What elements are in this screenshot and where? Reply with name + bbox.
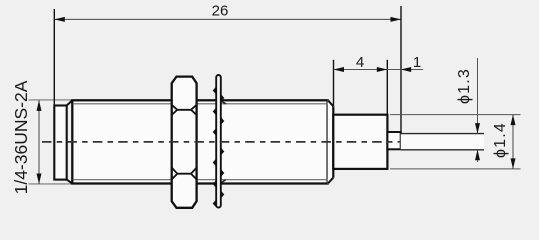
node: front collar bbox=[54, 106, 66, 180]
svg-text:26: 26 bbox=[212, 3, 229, 20]
svg-text:1: 1 bbox=[413, 54, 421, 71]
dimension 26: left extension line bbox=[53, 9, 55, 106]
wire: thread major extension line top bbox=[29, 99, 73, 101]
node: small rear cylinder bbox=[333, 115, 387, 169]
dimension 1: arrow (outside, pointing left) bbox=[401, 67, 412, 72]
wire: pin bottom line / phi1.3 extension bbox=[401, 149, 484, 151]
wire: body end chamfer bottom bbox=[328, 178, 333, 184]
wire: body end chamfer top bbox=[328, 101, 333, 107]
svg-text:ϕ1.3: ϕ1.3 bbox=[456, 68, 473, 104]
dimension 26: right arrow bbox=[391, 17, 402, 22]
wire: nut lower facet arcs bbox=[172, 168, 197, 180]
wire: thread minor line bottom bbox=[73, 179, 328, 181]
dimension phi1.4: dimension line bbox=[512, 115, 514, 169]
dimension 26: right extension line bbox=[400, 6, 402, 132]
node: body end chamfer region fill bbox=[328, 100, 334, 183]
dimension 4: right arrow bbox=[377, 67, 388, 72]
svg-text:ϕ1.4: ϕ1.4 bbox=[492, 122, 509, 158]
node: washer teeth left side bbox=[213, 87, 216, 207]
dimension thread: bottom arrow bbox=[37, 174, 42, 185]
dimension phi1.3: dimension line lower segment bbox=[477, 150, 479, 162]
dimension phi1.3: dimension line upper segment bbox=[477, 58, 479, 134]
wire: thread lead-in chamfer top right of washer bbox=[221, 101, 226, 104]
dimension phi1.4: extension line bottom bbox=[390, 168, 521, 170]
node: contact pin second section fill bbox=[401, 134, 484, 150]
wire: thread lead-in chamfer bottom right of washer bbox=[221, 180, 226, 183]
wire: thread major extension line bottom bbox=[29, 183, 73, 185]
wire: collar-to-barrel chamfer top bbox=[67, 100, 73, 105]
wire: collar-to-barrel chamfer bottom bbox=[67, 180, 73, 184]
wire: body end face bbox=[332, 106, 334, 177]
node: main threaded barrel body bbox=[72, 100, 327, 183]
dimension 26: left arrow bbox=[54, 17, 65, 22]
dimension thread: dimension line bbox=[38, 100, 40, 184]
dimension 4: left extension line bbox=[333, 60, 335, 106]
dimension 26: dimension line bbox=[54, 18, 401, 20]
dimension phi1.4: top arrow bbox=[511, 115, 516, 126]
wire: pin top line / phi1.3 extension bbox=[401, 133, 484, 135]
wire: nut upper facet arcs bbox=[172, 105, 197, 115]
node: washer teeth right side bbox=[221, 95, 224, 199]
wire: thread minor line top bbox=[73, 103, 328, 105]
node: hex nut bbox=[172, 77, 197, 208]
dimension phi1.4: extension line top bbox=[390, 114, 521, 116]
wire: centerline dash-dot bbox=[42, 141, 400, 143]
dimension 4 and 1: dimension line bbox=[334, 69, 424, 71]
dimension thread: top arrow bbox=[37, 100, 42, 111]
dimension 4: left arrow bbox=[334, 67, 345, 72]
node: toothed lock washer bbox=[216, 75, 221, 208]
svg-text:4: 4 bbox=[356, 54, 364, 71]
svg-text:1/4-36UNS-2A: 1/4-36UNS-2A bbox=[11, 80, 31, 194]
dimension phi1.4: bottom arrow bbox=[511, 158, 516, 169]
dimension phi1.3: upper arrow pointing down bbox=[475, 123, 480, 134]
dimension phi1.3: lower arrow pointing up bbox=[475, 150, 480, 161]
dimension 4: right extension line bbox=[386, 60, 388, 115]
node: contact pin first section bbox=[387, 132, 400, 149]
